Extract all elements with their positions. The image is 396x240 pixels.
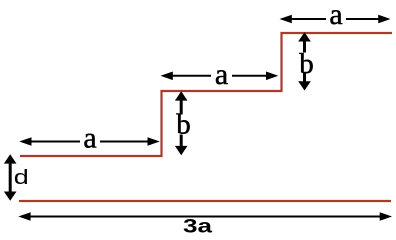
svg-text:b: b bbox=[299, 48, 314, 80]
svg-text:d: d bbox=[14, 167, 29, 189]
svg-text:3a: 3a bbox=[183, 217, 213, 236]
svg-text:a: a bbox=[83, 122, 96, 155]
svg-text:a: a bbox=[215, 58, 228, 91]
svg-text:b: b bbox=[176, 109, 191, 141]
svg-text:a: a bbox=[329, 0, 342, 31]
